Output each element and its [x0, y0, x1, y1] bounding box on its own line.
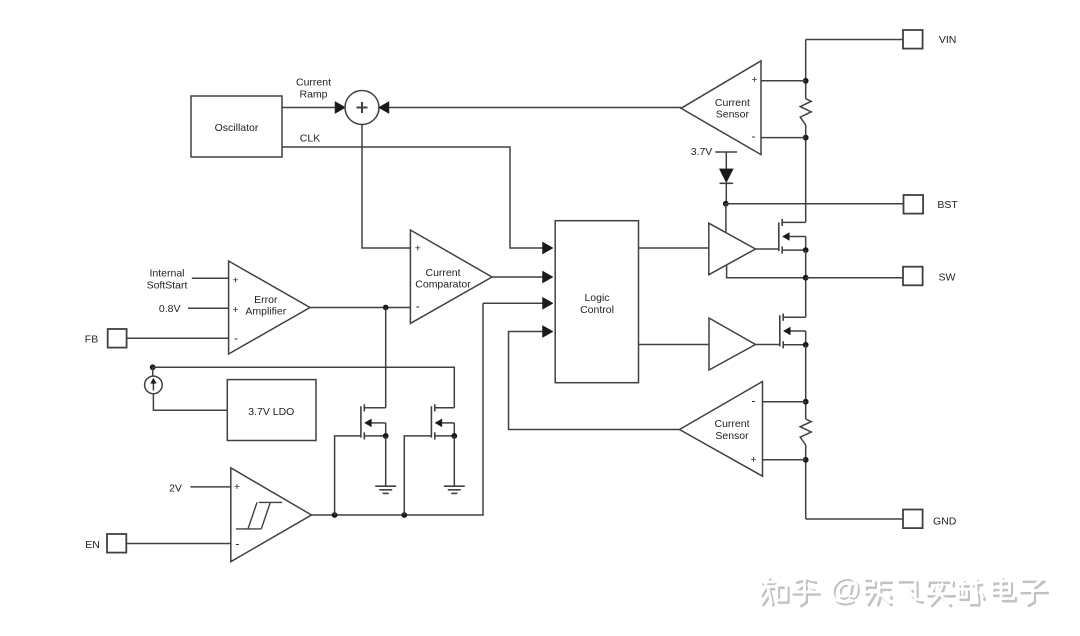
svg-text:EN: EN: [85, 539, 100, 551]
svg-text:+: +: [750, 454, 756, 466]
svg-text:+: +: [232, 275, 238, 287]
svg-text:GND: GND: [933, 516, 957, 528]
svg-text:@: @: [829, 571, 860, 606]
svg-text:Sensor: Sensor: [716, 109, 750, 121]
svg-text:Ramp: Ramp: [299, 89, 327, 101]
svg-text:-: -: [234, 331, 238, 345]
svg-text:SoftStart: SoftStart: [147, 279, 188, 291]
svg-text:-: -: [235, 537, 239, 551]
svg-text:-: -: [752, 393, 756, 407]
svg-text:0.8V: 0.8V: [159, 303, 181, 315]
svg-text:Internal: Internal: [149, 268, 184, 280]
svg-text:Control: Control: [580, 304, 614, 316]
svg-text:Comparator: Comparator: [415, 279, 471, 291]
svg-text:Error: Error: [254, 294, 278, 306]
svg-text:Amplifier: Amplifier: [245, 306, 286, 318]
svg-text:FB: FB: [85, 334, 98, 346]
svg-text:-: -: [416, 299, 420, 313]
svg-text:Current: Current: [296, 77, 331, 89]
svg-text:VIN: VIN: [939, 34, 957, 46]
svg-text:SW: SW: [939, 272, 956, 284]
svg-text:+: +: [232, 304, 238, 316]
svg-text:+: +: [234, 481, 240, 493]
svg-text:BST: BST: [937, 199, 958, 211]
svg-text:3.7V: 3.7V: [691, 146, 713, 158]
svg-text:Sensor: Sensor: [715, 430, 749, 442]
svg-text:+: +: [751, 74, 757, 86]
svg-text:2V: 2V: [169, 483, 182, 495]
svg-text:Current: Current: [715, 97, 750, 109]
svg-text:-: -: [752, 129, 756, 143]
svg-text:CLK: CLK: [300, 132, 320, 144]
svg-text:+: +: [415, 243, 421, 255]
svg-text:Current: Current: [425, 267, 460, 279]
svg-text:Current: Current: [714, 418, 749, 430]
svg-text:Logic: Logic: [584, 292, 609, 304]
svg-text:Oscillator: Oscillator: [215, 122, 259, 134]
svg-text:3.7V LDO: 3.7V LDO: [248, 406, 294, 418]
